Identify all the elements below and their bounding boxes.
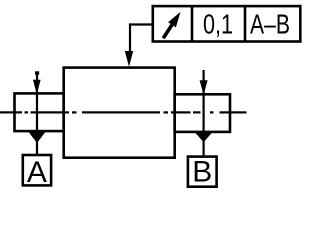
wire: leader from feature control frame to cylinder [130,25,153,54]
frame divider 1 [191,6,194,41]
datum A: filled datum triangle on journal bottom face [28,131,46,143]
datum A: vertical line through journal [36,72,38,157]
datum B: vertical line through journal [203,70,205,157]
datum B: filled datum triangle on journal bottom face [195,132,213,142]
feature control frame [153,6,300,41]
leader arrowhead on cylinder top face [125,51,133,67]
svg-text:A–B: A–B [250,8,290,39]
svg-text:A: A [27,156,47,189]
datum B: arrowhead onto journal top face [200,80,208,95]
datum letter box B [188,157,217,187]
left journal (datum feature A) [15,93,64,131]
centerline (shaft axis, dash-dot) [0,111,247,113]
datum A: knob at line top [35,71,39,74]
svg-text:0,1: 0,1 [203,8,233,39]
datum letter box A [23,155,51,185]
datum A: arrowhead onto journal top face [33,80,41,95]
frame divider 2 [244,6,247,41]
svg-text:B: B [192,156,212,189]
right journal (datum feature B) [175,94,230,132]
circular runout symbol [163,12,180,38]
cylinder body (large diameter) [64,68,175,158]
